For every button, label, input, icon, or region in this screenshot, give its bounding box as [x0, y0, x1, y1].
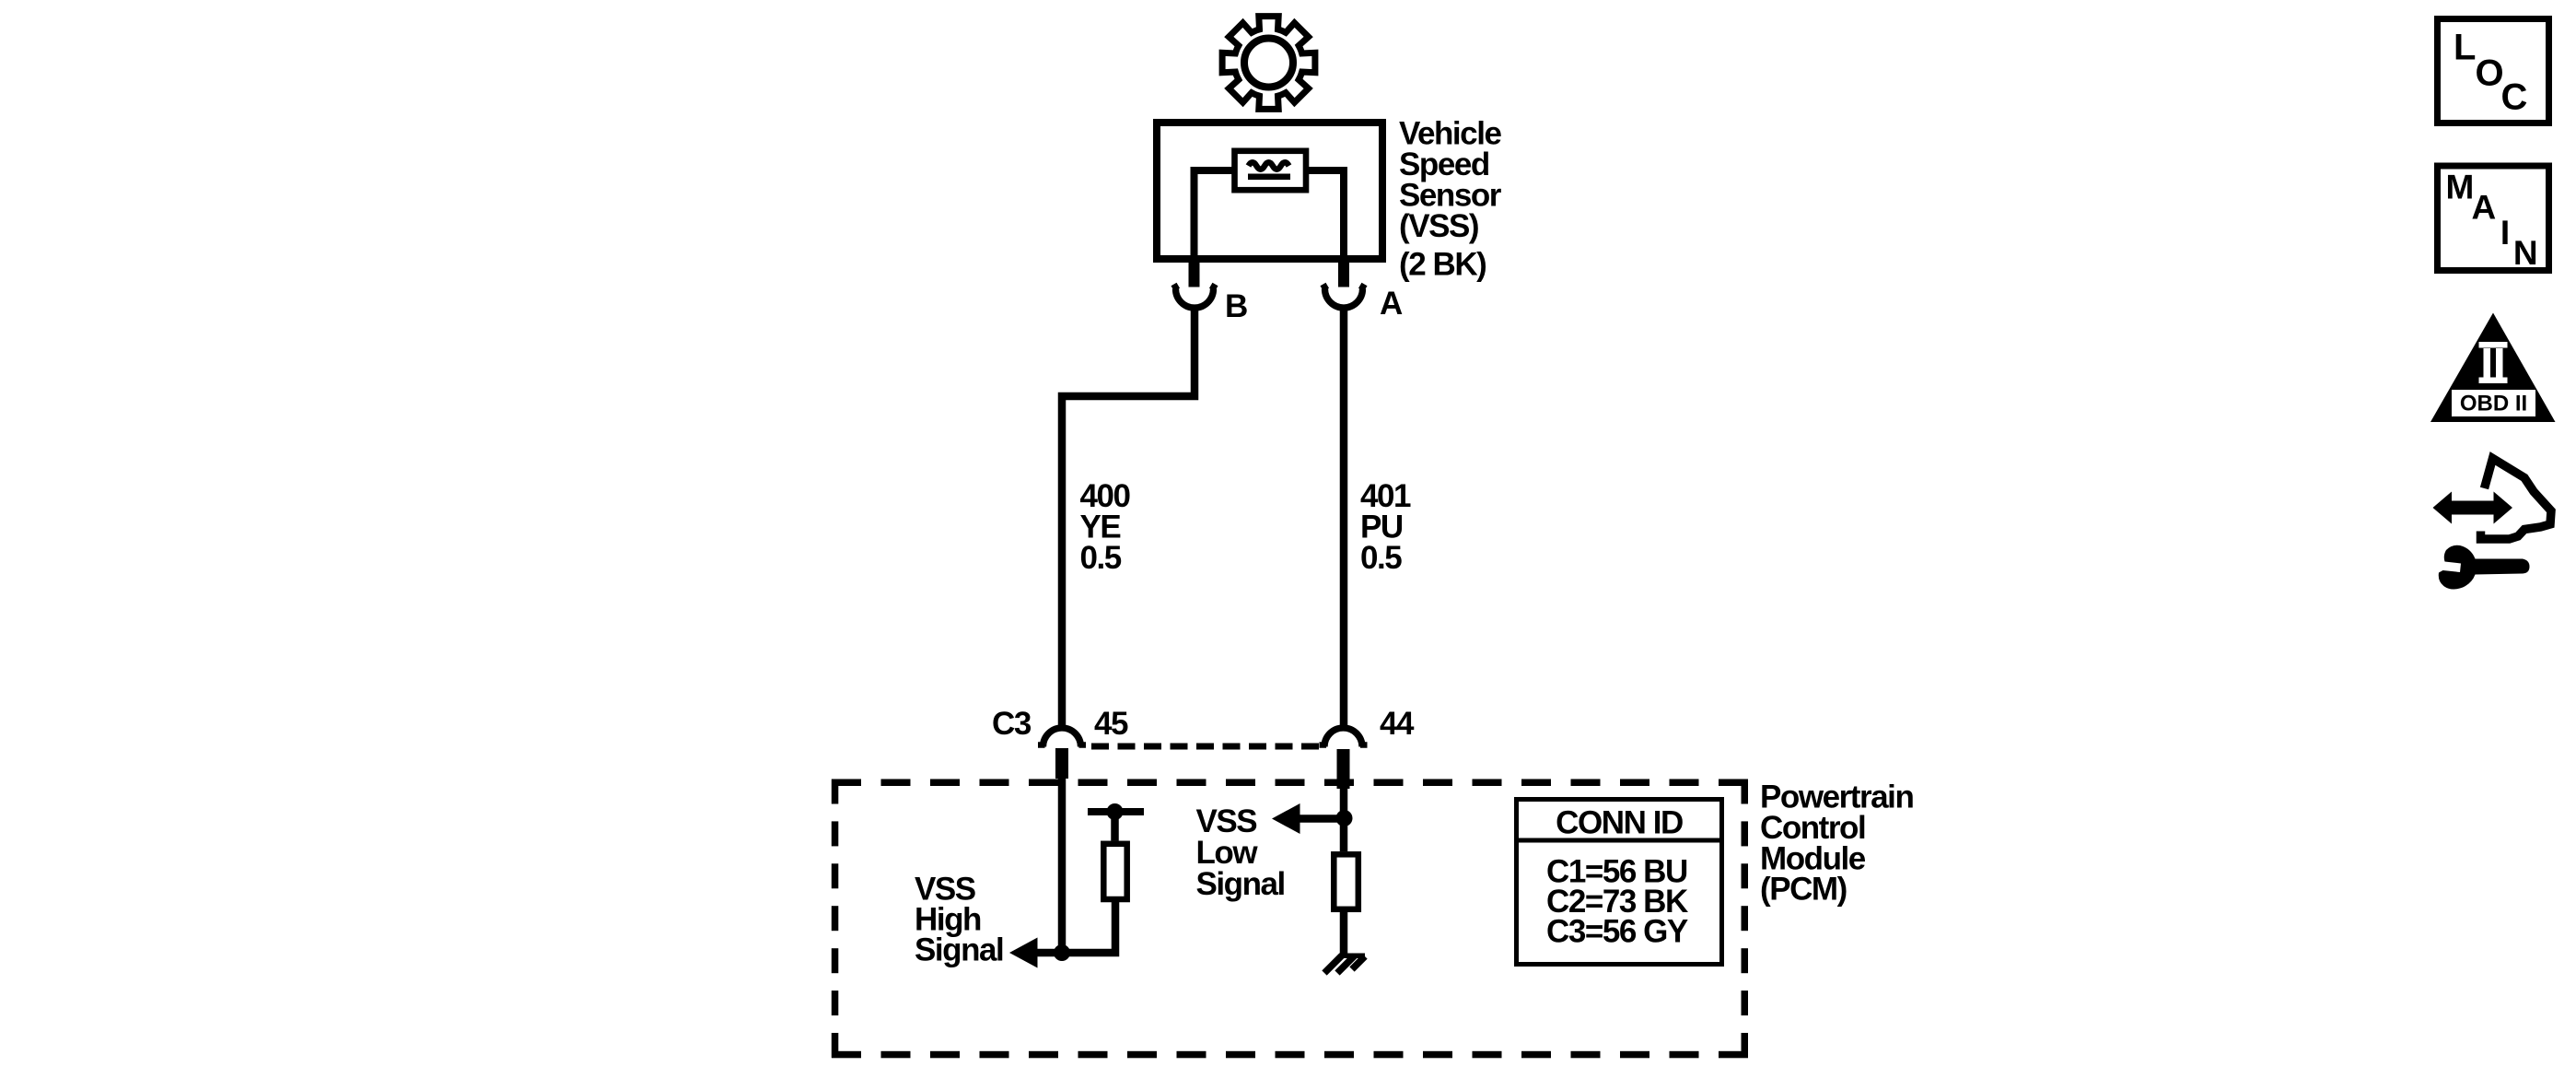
connector terminal A [1323, 285, 1365, 309]
svg-text:N: N [2513, 234, 2538, 272]
pin stub A [1338, 259, 1349, 287]
svg-text:A: A [1380, 286, 1403, 322]
label Powertrain Control Module (PCM) [1760, 779, 1913, 908]
sensor element (inductive pickup) [1235, 151, 1307, 190]
svg-text:(2 BK): (2 BK) [1399, 247, 1486, 283]
label VSS High Signal [915, 872, 1003, 968]
wire resistor R-low to ground [1340, 912, 1348, 955]
junction node VSS low [1336, 810, 1353, 826]
svg-text:M: M [2446, 168, 2475, 205]
pin stub 44 [1337, 749, 1350, 789]
wire node to resistor R-high [1062, 902, 1115, 953]
svg-text:Signal: Signal [915, 932, 1003, 968]
svg-text:OBD II: OBD II [2460, 392, 2527, 416]
MAIN icon [2438, 166, 2549, 272]
svg-text:(PCM): (PCM) [1760, 872, 1847, 908]
CONN ID table [1514, 800, 1724, 965]
label VSS Low Signal [1196, 803, 1285, 902]
svg-text:0.5: 0.5 [1360, 540, 1402, 576]
svg-text:O: O [2476, 53, 2504, 93]
svg-text:CONN ID: CONN ID [1556, 805, 1683, 841]
diagnostic double-arrow and wrench icon [2433, 459, 2552, 590]
svg-text:A: A [2472, 189, 2497, 227]
LOC icon [2438, 19, 2549, 123]
svg-text:I: I [2500, 214, 2510, 252]
wire pin 45 down to VSS high node [1058, 779, 1067, 953]
svg-text:(VSS): (VSS) [1399, 208, 1478, 244]
wire circuit 401 PU (pin A to pin 44) [1340, 306, 1348, 726]
wire pin 44 down to VSS low node [1340, 789, 1348, 851]
label 401 PU 0.5 [1360, 478, 1411, 576]
internal voltage rail [1088, 808, 1144, 815]
svg-text:Signal: Signal [1196, 866, 1285, 902]
wire sensor element to pin B [1195, 170, 1235, 259]
svg-text:44: 44 [1380, 706, 1415, 742]
svg-text:45: 45 [1094, 706, 1128, 742]
svg-text:C: C [2501, 77, 2528, 118]
resistor R-high [1103, 844, 1126, 899]
OBD II icon [2430, 313, 2556, 423]
gear icon (vehicle speed sensor rotor) [1222, 17, 1315, 110]
pin stub B [1189, 259, 1200, 287]
arrow VSS High Signal [1009, 938, 1062, 968]
ground symbol [1324, 954, 1365, 974]
connector C3 dashed line [1091, 744, 1319, 750]
resistor R-low [1334, 854, 1358, 909]
svg-text:C3=56 GY: C3=56 GY [1546, 914, 1688, 950]
junction node on rail [1107, 803, 1124, 820]
powertrain control module dashed box [832, 779, 1748, 1059]
label: Vehicle Speed Sensor (VSS) (2 BK) [1399, 116, 1502, 283]
svg-text:B: B [1225, 288, 1247, 324]
arrow VSS Low Signal [1272, 803, 1344, 834]
svg-text:0.5: 0.5 [1080, 540, 1122, 576]
label 400 YE 0.5 [1080, 478, 1131, 576]
connector terminal 45 [1038, 728, 1086, 747]
junction node VSS high [1054, 944, 1070, 961]
svg-text:L: L [2454, 27, 2476, 67]
wire sensor element to pin A [1306, 170, 1344, 259]
wire circuit 400 YE (pin B to pin 45) [1062, 306, 1195, 726]
connector terminal B [1174, 285, 1216, 309]
vehicle speed sensor box [1157, 123, 1382, 259]
pin stub 45 [1055, 748, 1068, 779]
svg-text:C3: C3 [992, 706, 1032, 742]
wire resistor R-high to internal rail [1111, 812, 1119, 841]
connector terminal 44 [1320, 728, 1368, 747]
